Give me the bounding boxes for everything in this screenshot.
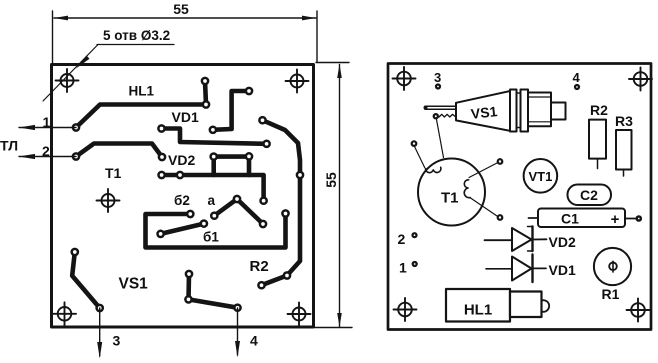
svg-text:VD1: VD1: [172, 109, 199, 125]
wire: T1 lead to top-left pad: [415, 147, 425, 168]
svg-text:1: 1: [399, 260, 407, 276]
thyristor VS1: thread lines: [517, 92, 521, 94]
arrowhead lead-out 1: [19, 125, 36, 130]
capacitor C1: outline: [538, 209, 625, 228]
pad T1 top-left: [412, 141, 417, 146]
wire: trace pin2 net: [76, 144, 162, 158]
pad pin4 net top: [186, 271, 192, 277]
wire: lead-out 3: [99, 308, 101, 356]
wire: lead-out 4: [237, 308, 239, 355]
junction pad R2 net middle: [297, 172, 303, 178]
pad VD1 lower right: [264, 141, 270, 147]
svg-text:VS1: VS1: [470, 103, 498, 122]
pad pin4: [234, 305, 240, 311]
dimension 55 right: bottom arrowhead: [337, 313, 342, 327]
dimension 55 top: left arrowhead: [54, 16, 68, 21]
svg-text:VS1: VS1: [119, 276, 149, 293]
pad pin4 (right board): [575, 85, 579, 89]
thyristor VS1: flange ring 2: [521, 90, 529, 132]
pad VD2 anode: [159, 154, 165, 160]
trimmer R1: slot circle: [609, 263, 617, 271]
svg-text:2: 2: [398, 231, 406, 247]
wire: lead-out 1: [19, 127, 76, 129]
diode VD2: right lead: [533, 238, 547, 240]
svg-text:а: а: [208, 193, 216, 208]
lamp HL1: body: [446, 289, 510, 322]
mounting hole center (left board): [97, 189, 120, 212]
pad a right: [260, 221, 266, 227]
svg-text:б1: б1: [203, 230, 219, 245]
svg-text:4: 4: [250, 333, 258, 349]
svg-text:VD1: VD1: [549, 262, 576, 278]
wire: trace HL1 net (pin1): [76, 105, 206, 128]
svg-text:ТЛ: ТЛ: [0, 138, 18, 154]
pad HL1 top: [202, 78, 208, 84]
pad C1 plus: [637, 216, 641, 220]
pad pin3: [97, 305, 103, 311]
mounting hole top-left (left board): [56, 69, 79, 92]
pad bridge left: [211, 154, 217, 160]
wire: trace VS1 cathode: [72, 252, 100, 308]
hole callout arrowhead: [76, 56, 90, 69]
pad VD2 h second: [177, 172, 183, 178]
thyristor VS1: flange ring 1: [510, 90, 517, 132]
wire: trace VD1 upper: [213, 91, 249, 130]
diode VD1: triangle: [512, 257, 532, 281]
svg-text:2: 2: [42, 143, 50, 159]
transformer T1: winding squiggle right: [464, 180, 470, 198]
diode VD1: right lead: [533, 267, 547, 269]
wire: trace VD1 lower: [162, 129, 267, 144]
svg-text:VD2: VD2: [168, 152, 195, 168]
dimension 55 top: extension line left: [52, 11, 54, 63]
resistor R2: outline: [589, 120, 606, 159]
capacitor C1: left lead: [529, 217, 539, 219]
pad R2 net top: [259, 117, 265, 123]
mounting hole top-right (right board): [629, 68, 652, 91]
pad VD1 upper right: [246, 88, 252, 94]
mounting hole top-right (left board): [286, 70, 309, 93]
pad b1 left: [158, 231, 164, 237]
lamp HL1: tip bump: [542, 300, 550, 312]
dimension 55 right: top arrowhead: [337, 64, 342, 78]
thyristor VS1: body cylinder: [528, 93, 551, 127]
svg-text:VD2: VD2: [549, 234, 576, 250]
trimmer R1: body circle: [594, 248, 631, 285]
trimmer R1: slot line: [612, 261, 614, 272]
svg-text:C1: C1: [561, 211, 579, 227]
pad pin3 (right board): [436, 85, 440, 89]
arrowhead lead-out 4: [235, 341, 240, 358]
pad T1 right-bottom: [498, 215, 503, 220]
transformer T1: circle: [418, 159, 485, 226]
pad VD1 lower left: [158, 125, 164, 131]
diode VD2: cathode bar: [531, 227, 533, 252]
mounting hole bottom-right (right board): [627, 299, 650, 322]
hole callout underline: [97, 44, 174, 46]
diode VD1: cathode bar: [531, 255, 533, 283]
mounting hole bottom-left (right board): [394, 298, 417, 321]
mounting hole top-left (right board): [393, 67, 416, 90]
pad VD1 upper left: [210, 127, 216, 133]
svg-text:R2: R2: [250, 258, 269, 275]
pad pin1 (right board): [413, 262, 417, 266]
hole callout leader line: [43, 45, 98, 102]
wire: trace VD2 horizontal: [162, 175, 264, 201]
pad VD2 h left: [159, 172, 165, 178]
svg-text:3: 3: [434, 70, 441, 85]
mounting hole bottom-left (left board): [53, 302, 76, 325]
svg-text:+: +: [611, 211, 620, 228]
dimension 55 right: extension line top: [316, 62, 349, 64]
arrowhead lead-out 2: [19, 154, 36, 159]
junction pad HL1 corner: [203, 101, 209, 107]
svg-text:Т1: Т1: [441, 190, 459, 207]
pad bridge right: [246, 153, 252, 159]
thyristor VS1: bottom lead (braided): [439, 114, 455, 117]
svg-text:HL1: HL1: [129, 84, 155, 99]
pad a peak: [234, 196, 240, 202]
svg-text:55: 55: [173, 1, 189, 17]
dimension 55 right: dimension line: [339, 65, 341, 328]
wire: trace bottom U: [146, 214, 286, 248]
pad b1 right: [201, 221, 207, 227]
svg-text:HL1: HL1: [464, 302, 492, 319]
resistor R3: outline: [616, 130, 632, 170]
svg-text:1: 1: [43, 114, 51, 130]
svg-text:4: 4: [573, 70, 581, 85]
pad VD2 h end: [261, 198, 267, 204]
capacitor C1: right lead: [625, 218, 636, 220]
arrowhead lead-out 3: [97, 342, 102, 359]
dimension 55 top: dimension line: [54, 17, 316, 19]
transformer T1: winding bump upper-left: [425, 167, 440, 172]
diode VD1: left lead: [486, 268, 512, 270]
thyristor VS1: cone body: [456, 91, 510, 131]
wire: trace bottom middle (pin4): [189, 274, 238, 308]
svg-text:R2: R2: [590, 102, 608, 118]
svg-text:C2: C2: [580, 187, 598, 203]
thyristor VS1: top lead: [425, 105, 456, 107]
dimension 55 top: right arrowhead: [302, 16, 316, 21]
wire: trace a peak: [214, 199, 263, 224]
wire: trace bridge over VD2 net: [214, 157, 249, 175]
svg-text:R1: R1: [602, 286, 620, 302]
wire: trace branch to top pad: [205, 81, 206, 105]
wire: T1 lead to right-top pad: [469, 163, 497, 178]
pad a left: [211, 213, 217, 219]
diode VD2: left lead: [485, 239, 513, 241]
resistor R2: bottom lead: [597, 159, 599, 169]
svg-text:5 отв Ø3.2: 5 отв Ø3.2: [103, 28, 170, 43]
svg-text:T1: T1: [105, 165, 122, 181]
left PCB board outline: [52, 65, 314, 328]
wire: T1 lead to right-bottom pad: [470, 198, 497, 216]
svg-text:55: 55: [323, 172, 339, 188]
svg-text:б2: б2: [174, 193, 190, 208]
thyristor VS1: stud: [551, 103, 566, 120]
pad pin1: [73, 124, 79, 130]
mounting hole bottom-right (left board): [288, 303, 311, 326]
pad pin2: [73, 153, 79, 159]
right board outline: [388, 64, 651, 330]
pad VS1 top: [72, 249, 78, 255]
pad pin2 (right board): [413, 233, 417, 237]
transistor VT1: circle: [524, 159, 558, 193]
lamp HL1: holder: [510, 292, 542, 318]
diode VD2: triangle: [512, 228, 532, 251]
pad U right: [282, 210, 288, 216]
svg-text:R3: R3: [615, 113, 633, 129]
wire: lead-out 2: [19, 156, 76, 158]
capacitor C2: outline: [568, 185, 612, 206]
svg-text:3: 3: [113, 333, 121, 349]
pad R2 net end: [258, 282, 264, 288]
dimension 55 right: extension line bottom: [315, 327, 352, 329]
dimension 55 top: extension line right: [316, 11, 318, 62]
pad T1 right-top: [498, 159, 503, 164]
pad pin4 net bend: [185, 296, 191, 302]
pad R2 net bend: [284, 272, 290, 278]
svg-text:VT1: VT1: [528, 169, 552, 184]
thyristor VS1: gate pad: [434, 114, 438, 118]
wire: VS1 gate to T1: [437, 120, 444, 158]
resistor R3: bottom lead: [623, 170, 625, 177]
wire: long right-side trace R2 net: [262, 120, 301, 285]
wire: trace b1 diagonal: [161, 224, 204, 234]
pad U top: [187, 211, 193, 217]
pads (left board): [72, 78, 303, 311]
